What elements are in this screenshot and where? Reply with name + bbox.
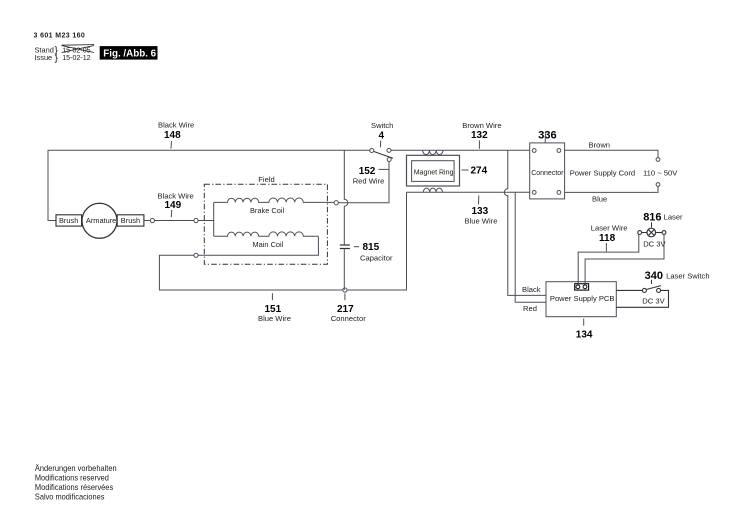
svg-text:15-02-12: 15-02-12	[62, 54, 90, 62]
svg-text:3 601 M23 160: 3 601 M23 160	[34, 32, 86, 39]
svg-text:148: 148	[164, 130, 181, 141]
label Switch 4	[371, 121, 393, 147]
svg-text:149: 149	[165, 200, 182, 211]
connector: laser wire pins on PCB	[575, 284, 589, 290]
label 132 Brown Wire	[462, 121, 501, 149]
brush B2 (right)	[117, 215, 144, 226]
field box (dash-dot)	[204, 184, 327, 264]
wire 149: black wire from brush to field input	[144, 220, 196, 222]
wire 118a: laser wire pin1 to lamp left terminal	[578, 234, 639, 284]
label 816 Laser	[643, 212, 683, 224]
svg-text:Black: Black	[522, 285, 541, 294]
switch 340: laser switch loop	[616, 280, 668, 307]
svg-text:Armature: Armature	[86, 216, 116, 225]
wire 148: black wire, left vertical + top run to switch	[48, 150, 370, 220]
svg-text:Modifications reserved: Modifications reserved	[35, 472, 109, 482]
svg-text:Blue Wire: Blue Wire	[258, 314, 291, 323]
switch 4	[370, 148, 393, 161]
capacitor 815	[340, 245, 350, 249]
svg-text:118: 118	[599, 233, 616, 244]
wire 118b: laser wire pin2 to lamp right terminal	[585, 234, 664, 283]
wire: main coil return	[198, 236, 318, 255]
svg-text:Modifications réservées: Modifications réservées	[35, 482, 113, 492]
svg-text:Brown Wire: Brown Wire	[462, 121, 501, 130]
svg-text:132: 132	[471, 130, 488, 141]
svg-text:Fig. /Abb. 6: Fig. /Abb. 6	[103, 48, 156, 59]
svg-text:Field: Field	[258, 175, 274, 184]
brush B1 (left)	[56, 215, 82, 226]
wire: field input branch	[198, 202, 214, 236]
svg-text:Main Coil: Main Coil	[253, 240, 284, 249]
wire: capacitor branch from top wire, with hop over red wire	[344, 150, 348, 244]
svg-text:Änderungen vorbehalten: Änderungen vorbehalten	[35, 463, 117, 473]
label Laser Wire 118	[591, 224, 628, 252]
inductor: magnet ring bottom winding	[423, 188, 442, 192]
magnet ring 274	[407, 155, 460, 186]
revision block Stand/Issue	[35, 45, 95, 64]
wire 151: blue wire bottom run	[159, 192, 406, 290]
wire: black wire from brown net down to PCB, hop over blue wire	[504, 150, 546, 295]
svg-text:Magnet Ring: Magnet Ring	[414, 169, 454, 177]
wire: capacitor to bottom wire	[343, 249, 345, 291]
label 815 Capacitor	[354, 242, 393, 262]
inductor: brake coil	[214, 198, 334, 202]
svg-text:Brown: Brown	[589, 141, 611, 150]
label 148 Black Wire	[158, 120, 194, 148]
label 340 Laser Switch	[645, 270, 710, 282]
svg-text:Laser Switch: Laser Switch	[666, 271, 709, 280]
wire: brown cord	[565, 150, 658, 157]
svg-text:336: 336	[538, 129, 556, 141]
svg-text:Laser Wire: Laser Wire	[591, 224, 628, 233]
svg-text:Issue: Issue	[35, 53, 53, 62]
svg-text:Red Wire: Red Wire	[353, 176, 385, 185]
svg-text:Blue: Blue	[592, 194, 607, 203]
label 217 Connector	[331, 293, 367, 322]
svg-text:4: 4	[379, 130, 385, 141]
wire 152: red wire from switch to brake coil output	[338, 161, 389, 202]
node: armature output	[150, 218, 154, 222]
node 217: connector junction on bottom wire	[343, 288, 347, 292]
brush labels and armature label	[59, 216, 140, 225]
svg-text:Salvo modificaciones: Salvo modificaciones	[35, 491, 105, 501]
svg-text:Laser: Laser	[664, 213, 683, 222]
node: brake coil output	[334, 201, 338, 205]
label 151 Blue Wire	[258, 293, 291, 323]
wire 133: blue wire from bottom junction to connector 336	[407, 191, 530, 193]
terminal: blue cord plug pin	[656, 183, 660, 187]
label 274	[462, 166, 488, 177]
svg-text:110 ~ 50V: 110 ~ 50V	[643, 168, 678, 177]
svg-text:Red: Red	[523, 304, 537, 313]
wire 132: brown wire from switch to connector 336	[391, 149, 530, 151]
label 133 Blue Wire	[465, 196, 498, 226]
svg-text:274: 274	[471, 166, 488, 177]
node: field input	[194, 218, 198, 222]
svg-text:Brake Coil: Brake Coil	[250, 206, 284, 215]
svg-text:Switch: Switch	[371, 121, 393, 130]
svg-text:152: 152	[359, 166, 376, 177]
inductor: main coil	[214, 232, 319, 236]
svg-text:Capacitor: Capacitor	[360, 253, 393, 262]
label 134	[576, 319, 593, 341]
svg-text:DC 3V: DC 3V	[643, 240, 666, 249]
connector 336	[530, 143, 565, 199]
figure label box Fig./Abb. 6	[100, 46, 158, 60]
svg-text:Power Supply PCB: Power Supply PCB	[550, 294, 615, 303]
svg-text:815: 815	[363, 242, 380, 253]
svg-text:Black Wire: Black Wire	[158, 120, 194, 129]
lamp 816: laser diode with terminals	[638, 222, 666, 237]
terminal: brown cord plug pin	[656, 158, 660, 162]
svg-text:DC 3V: DC 3V	[642, 297, 665, 306]
label 336	[538, 129, 556, 142]
inductor: magnet ring top winding	[423, 150, 443, 154]
footer disclaimer text	[35, 463, 117, 502]
node: main coil output	[194, 253, 198, 257]
svg-text:Connector: Connector	[531, 170, 564, 177]
wire: blue cord	[565, 186, 658, 192]
svg-text:816: 816	[643, 212, 661, 224]
label 152 Red Wire	[353, 166, 389, 185]
wire: red wire from blue net down to PCB	[515, 192, 546, 302]
svg-text:Brush: Brush	[59, 216, 78, 225]
svg-text:340: 340	[645, 270, 663, 282]
PCB 134 box	[546, 282, 616, 317]
svg-text:Power Supply Cord: Power Supply Cord	[570, 168, 635, 177]
svg-text:Connector: Connector	[331, 314, 367, 323]
motor armature M1	[82, 203, 117, 238]
svg-text:134: 134	[576, 329, 593, 340]
svg-text:Blue Wire: Blue Wire	[465, 216, 498, 225]
svg-text:Brush: Brush	[121, 216, 140, 225]
label 149 Black Wire	[158, 192, 194, 218]
